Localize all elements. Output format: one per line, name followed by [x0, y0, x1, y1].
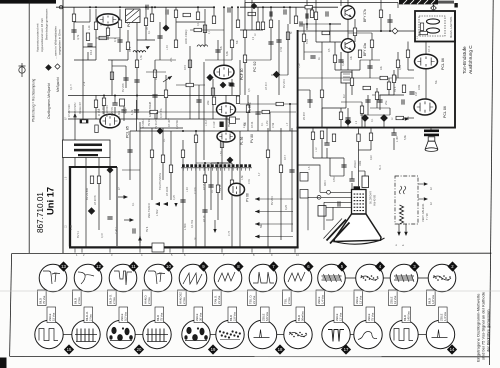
wire — [359, 170, 366, 172]
audio rail top nub — [454, 3, 457, 8]
svg-text:ZEILE: ZEILE — [120, 313, 124, 321]
wire — [257, 95, 259, 131]
svg-text:BV 206: BV 206 — [121, 83, 125, 92]
wire — [129, 131, 131, 180]
svg-text:Uni 17: Uni 17 — [45, 187, 56, 215]
oscillogram point near V2 — [207, 74, 213, 80]
resistor R36 — [420, 23, 423, 31]
capacitor C6 — [146, 5, 148, 10]
wire — [304, 51, 322, 53]
chassis bus bottom (heavy) — [69, 246, 299, 248]
wire — [322, 107, 346, 109]
oscillogram 2 circle — [428, 264, 456, 292]
wire — [122, 169, 140, 171]
svg-text:PC 92: PC 92 — [253, 61, 257, 72]
wire — [108, 59, 128, 61]
svg-text:BILDROHR: BILDROHR — [370, 191, 373, 204]
wire — [433, 4, 435, 11]
arrow down — [397, 232, 401, 236]
output transformer heavy box — [415, 11, 455, 42]
svg-text:21 Vss: 21 Vss — [217, 295, 221, 304]
wire — [297, 89, 310, 91]
resistor R15 — [95, 125, 98, 133]
capacitor Ct3 — [284, 9, 286, 14]
oscillogram row2 11 label — [402, 307, 411, 323]
resistor R32 — [333, 55, 336, 63]
capacitor C1 — [71, 30, 76, 32]
wire — [146, 71, 166, 73]
yoke diagonal thin — [324, 219, 343, 239]
resistor R45 — [369, 133, 372, 141]
wire transformer to tube — [425, 42, 427, 55]
capacitor C82 — [121, 110, 126, 112]
tube V6 PL 36 — [217, 131, 235, 142]
svg-text:HAN.OSZ: HAN.OSZ — [178, 292, 182, 304]
wire — [211, 162, 232, 164]
wire — [371, 33, 373, 60]
transistor — [341, 39, 355, 53]
wire — [74, 115, 76, 140]
wire — [87, 52, 89, 60]
bottom-left corner registration mark — [0, 358, 7, 368]
oscillogram row2 9 circle — [322, 320, 350, 348]
svg-text:HAN.O.: HAN.O. — [143, 294, 147, 304]
wire — [196, 162, 232, 164]
svg-text:5,6k: 5,6k — [403, 134, 407, 140]
wire — [197, 7, 199, 12]
wire — [313, 157, 344, 159]
svg-text:C12: C12 — [89, 49, 93, 55]
wire — [123, 104, 125, 121]
wire — [240, 103, 297, 105]
resistor R22 — [194, 135, 197, 143]
wire — [345, 277, 355, 279]
measuring point — [431, 5, 437, 11]
oscillogram badge 13 — [58, 261, 68, 271]
oscillogram 10 label — [143, 290, 152, 306]
wire — [364, 171, 366, 176]
svg-text:PCF 80: PCF 80 — [240, 68, 244, 80]
oscillogram 4 waveform — [361, 275, 379, 281]
wire — [326, 219, 333, 221]
wire — [330, 175, 344, 177]
wire — [165, 7, 167, 25]
oscillogram 5 waveform — [322, 276, 342, 280]
wire — [335, 69, 360, 71]
resistor R28 — [243, 55, 246, 63]
svg-text:L 502: L 502 — [155, 209, 159, 216]
svg-text:2 Vss: 2 Vss — [112, 297, 116, 304]
wire — [326, 128, 328, 143]
resistor R53 — [174, 40, 177, 48]
resistor R4 — [86, 33, 89, 41]
board edge connector strip (dashed) — [181, 164, 252, 170]
oscillogram row2 2 circle — [72, 320, 100, 348]
wire — [267, 128, 269, 247]
svg-text:AT 18: AT 18 — [203, 215, 206, 222]
arrow right — [130, 218, 135, 222]
wire — [351, 183, 353, 190]
oscillogram 11 label — [108, 290, 117, 306]
wire — [239, 60, 241, 95]
oscillogram 13 waveform — [43, 271, 60, 284]
connector box on bus — [152, 243, 164, 252]
svg-text:ZEILE: ZEILE — [439, 313, 443, 321]
oscillogram row2 3 circle — [107, 320, 135, 348]
svg-text:BV 204: BV 204 — [270, 196, 274, 205]
svg-text:17: 17 — [344, 347, 349, 352]
wire — [245, 59, 271, 61]
capacitor C19 — [324, 143, 329, 145]
svg-text:22k: 22k — [206, 100, 210, 105]
capacitor C12 — [276, 40, 281, 42]
coil L2 — [133, 51, 146, 53]
capacitor C71 — [402, 99, 404, 104]
tube V8 PL 802 — [217, 103, 236, 116]
wire — [354, 36, 356, 42]
svg-text:50u: 50u — [435, 79, 438, 84]
wire — [345, 83, 347, 108]
resistor R66 — [339, 112, 342, 120]
oscillogram badge 4 — [375, 261, 385, 271]
capacitor C81 — [338, 201, 340, 206]
svg-text:L 414: L 414 — [205, 119, 208, 126]
svg-text:0,1 T: 0,1 T — [69, 84, 73, 90]
wire — [154, 60, 156, 119]
svg-text:PY 88: PY 88 — [246, 193, 250, 202]
small box above tube — [120, 99, 125, 106]
wire — [334, 63, 336, 70]
wire — [139, 122, 141, 243]
wire — [251, 0, 253, 30]
wire — [315, 5, 317, 42]
inductor L1 — [197, 45, 208, 47]
resistor Rt2 — [212, 16, 215, 24]
low-voltage box right edge — [116, 167, 118, 246]
wire — [198, 85, 200, 119]
wire — [367, 95, 369, 115]
resistor R26 — [279, 165, 282, 173]
connector arrow 1 — [255, 197, 260, 201]
svg-text:18: 18 — [278, 347, 283, 352]
resistor R65 — [216, 185, 219, 193]
resistor R1 — [72, 14, 75, 22]
oscillogram badge 15 — [64, 344, 74, 354]
resistor R8 — [153, 70, 156, 78]
wire — [388, 78, 390, 95]
resistor R20 — [161, 155, 164, 163]
oscillogram point 7 — [273, 71, 279, 77]
resistor R34 — [320, 90, 323, 98]
svg-text:ZEILE: ZEILE — [355, 296, 359, 304]
wire — [430, 129, 432, 130]
svg-text:BILD: BILD — [38, 298, 42, 304]
wire — [217, 163, 219, 220]
resistor R80 — [379, 10, 382, 18]
svg-text:0,47: 0,47 — [100, 232, 104, 238]
resistor Rt0 — [150, 14, 153, 22]
resistor R70 — [396, 60, 399, 68]
wire — [56, 6, 215, 8]
oscillogram 3 waveform — [394, 276, 414, 280]
resistor R41 — [396, 116, 404, 119]
svg-text:1,4 Vss: 1,4 Vss — [443, 311, 447, 321]
wire — [151, 128, 153, 200]
capacitor C5 — [229, 84, 234, 86]
oscillogram row2 4 waveform — [148, 329, 164, 342]
svg-text:AT 33: AT 33 — [251, 121, 254, 128]
oscillogram badge 14 — [447, 344, 457, 354]
svg-text:75 Vss: 75 Vss — [42, 295, 46, 304]
wire — [262, 7, 264, 22]
top black margin bar — [0, 0, 56, 4]
svg-text:BILD-O.: BILD-O. — [108, 294, 112, 304]
svg-text:1,5k: 1,5k — [139, 54, 143, 60]
resistor Rt1 — [196, 12, 199, 20]
capacitor C11 — [289, 170, 294, 172]
svg-text:220k: 220k — [418, 84, 421, 90]
svg-text:Ton-Endstufe: Ton-Endstufe — [462, 46, 467, 74]
wire — [351, 171, 353, 179]
oscillogram row2 7 label — [261, 307, 270, 323]
wire — [137, 39, 155, 41]
low-voltage box heavy left — [69, 166, 71, 247]
oscillogram point 8 — [157, 128, 163, 134]
svg-text:PL 36: PL 36 — [240, 137, 244, 145]
svg-text:13: 13 — [61, 264, 66, 269]
measuring point — [55, 64, 60, 69]
svg-text:BILD: BILD — [297, 315, 301, 321]
svg-text:BV 11: BV 11 — [76, 231, 80, 238]
wire — [329, 24, 331, 42]
wire — [139, 236, 141, 247]
oscillogram badge 10 — [163, 261, 173, 271]
oscillogram 2 label — [427, 290, 436, 306]
wire — [96, 37, 120, 39]
oscillogram point — [381, 115, 388, 122]
IC box — [341, 72, 352, 83]
svg-text:0,25: 0,25 — [284, 204, 288, 210]
svg-text:ZEILE: ZEILE — [261, 313, 265, 321]
svg-text:BFY 37b: BFY 37b — [363, 9, 367, 22]
oscillogram row2 12 circle — [426, 320, 454, 348]
wire — [271, 74, 288, 76]
capacitor C9 — [180, 200, 185, 202]
resistor R75 — [332, 134, 335, 142]
resistor R37 — [406, 50, 409, 58]
wire — [74, 21, 90, 23]
capacitor C18 — [377, 100, 382, 102]
wire — [326, 148, 328, 158]
svg-text:B 20: B 20 — [306, 38, 309, 44]
wire — [217, 40, 219, 60]
resistor R30 — [314, 12, 317, 20]
wire to audio — [298, 30, 392, 32]
svg-text:25u: 25u — [384, 100, 388, 105]
top signal bus right part — [240, 6, 338, 8]
svg-text:TEIL O.: TEIL O. — [248, 295, 252, 304]
wire — [348, 32, 372, 34]
oscillogram row2 3 label — [119, 307, 128, 323]
svg-text:BV 204: BV 204 — [282, 79, 286, 88]
oscillogram row2 9 label — [334, 307, 343, 323]
wire — [74, 158, 76, 168]
wire — [270, 7, 272, 60]
oscillogram badge 3 — [409, 261, 419, 271]
oscillogram 10 circle — [144, 264, 172, 292]
svg-text:2 Vss: 2 Vss — [88, 314, 92, 321]
resistor R84 — [236, 96, 239, 104]
wire — [405, 224, 407, 232]
CRT base cap — [354, 186, 361, 190]
resistor R29 — [261, 22, 264, 30]
wire — [231, 7, 233, 30]
resistor Rm3 — [262, 110, 270, 113]
wire — [231, 163, 233, 247]
arrow down — [174, 203, 177, 207]
arrow down — [404, 232, 408, 236]
wire — [334, 42, 336, 55]
wire — [225, 129, 227, 131]
svg-text:5,6 Vss: 5,6 Vss — [265, 311, 269, 321]
svg-text:75 Vss: 75 Vss — [370, 312, 374, 321]
resistor R18 — [97, 176, 100, 184]
oscillogram point 14 — [107, 167, 113, 173]
audio section heavy bottom rail — [297, 127, 456, 129]
oscillogram row2 4 label — [155, 307, 164, 323]
resistor R56 — [186, 83, 194, 86]
arrow — [73, 113, 77, 117]
wire — [407, 58, 409, 70]
svg-text:2 Vss: 2 Vss — [287, 297, 291, 304]
wire — [73, 7, 75, 40]
resistor R54 — [194, 28, 202, 31]
wire — [300, 23, 341, 25]
oscillogram badge 12 — [93, 261, 103, 271]
wire — [408, 69, 414, 71]
capacitor C13 — [300, 21, 302, 26]
svg-text:angegeben in Ohm: angegeben in Ohm — [58, 29, 62, 55]
resistor R24 — [230, 180, 233, 188]
tube V2 PCF 80 — [214, 65, 234, 79]
wire — [83, 46, 96, 48]
wire — [109, 158, 111, 201]
svg-text:PCL 86: PCL 86 — [441, 58, 445, 70]
wire — [127, 30, 129, 60]
wire — [196, 130, 297, 132]
svg-text:C 77: C 77 — [228, 230, 231, 236]
svg-text:0,25: 0,25 — [341, 60, 345, 66]
svg-text:1,5k: 1,5k — [241, 175, 244, 180]
svg-text:20: 20 — [137, 347, 142, 352]
resistor Rt5 — [294, 16, 297, 24]
wire — [306, 0, 308, 30]
edge connector pins — [75, 249, 295, 253]
resistor R74 — [320, 131, 323, 139]
svg-text:ZEILE: ZEILE — [389, 296, 393, 304]
svg-text:12 Vss: 12 Vss — [338, 312, 342, 321]
resistor R57 — [269, 20, 272, 28]
svg-text:BV 2: BV 2 — [129, 46, 132, 52]
svg-text:PCL 86: PCL 86 — [443, 106, 447, 118]
wire — [226, 112, 228, 131]
svg-text:ZEILE: ZEILE — [317, 296, 321, 304]
wire Q1 collector — [340, 0, 342, 6]
oscillogram point top — [251, 3, 257, 9]
video line — [68, 118, 240, 120]
transformer thin box — [63, 140, 111, 158]
wire — [124, 219, 130, 221]
wire — [130, 130, 196, 132]
oscillogram row2 6 label — [228, 307, 237, 323]
wire — [176, 21, 205, 23]
wire — [359, 149, 372, 151]
capacitor C80 — [349, 179, 354, 181]
wire — [316, 41, 341, 43]
wire — [278, 20, 280, 95]
oscillogram badge 6 — [303, 261, 313, 271]
svg-text:FARB-TREIB: FARB-TREIB — [148, 101, 152, 117]
resistor R19 — [150, 150, 153, 158]
wire — [114, 96, 116, 104]
yoke arrow 1 — [424, 182, 428, 186]
capacitor C3 — [134, 80, 139, 82]
svg-text:AT 417: AT 417 — [264, 81, 268, 90]
wire — [151, 7, 153, 14]
resistor R50 — [99, 36, 107, 39]
svg-text:MAGN. LAUTSPR.: MAGN. LAUTSPR. — [449, 16, 453, 38]
oscillogram row2 9 waveform — [328, 330, 344, 342]
capacitor C17 — [394, 75, 396, 80]
svg-text:C 417: C 417 — [114, 227, 118, 234]
resistor R16 — [80, 120, 88, 123]
oscillogram row2 7 circle — [248, 320, 276, 348]
oscillogram 3 circle — [390, 264, 418, 292]
wire — [255, 198, 293, 200]
wire — [255, 236, 293, 238]
wire — [398, 224, 400, 232]
svg-text:14: 14 — [450, 347, 455, 352]
oscillogram 7 circle — [249, 264, 277, 292]
wire — [240, 29, 263, 31]
wire — [176, 84, 205, 86]
wire — [156, 112, 158, 119]
wire — [321, 98, 323, 127]
svg-text:Apparaturzustand mit: Apparaturzustand mit — [36, 23, 40, 52]
capacitor C85 — [387, 20, 392, 22]
wire — [287, 24, 289, 60]
wire — [225, 116, 227, 130]
svg-text:BV 23 806: BV 23 806 — [85, 187, 89, 200]
resistor R43 — [311, 132, 314, 140]
oscillogram 3 label — [389, 290, 398, 306]
oscillogram point x — [345, 119, 351, 125]
svg-text:1M: 1M — [414, 92, 418, 96]
resistor R60 — [353, 28, 356, 36]
wire — [280, 128, 282, 240]
svg-text:BILD: BILD — [427, 298, 431, 304]
connector arrow 4 — [255, 235, 260, 239]
oscillogram 12 waveform — [78, 272, 94, 284]
wire — [159, 22, 161, 60]
wire — [379, 95, 381, 110]
tube V7 PY 88 — [229, 183, 245, 195]
svg-text:L 12: L 12 — [315, 147, 318, 152]
resistor R3 — [118, 20, 121, 28]
resistor R5 — [106, 28, 109, 36]
svg-text:0,1 5%: 0,1 5% — [190, 219, 194, 228]
bus pin numbers — [76, 253, 299, 257]
